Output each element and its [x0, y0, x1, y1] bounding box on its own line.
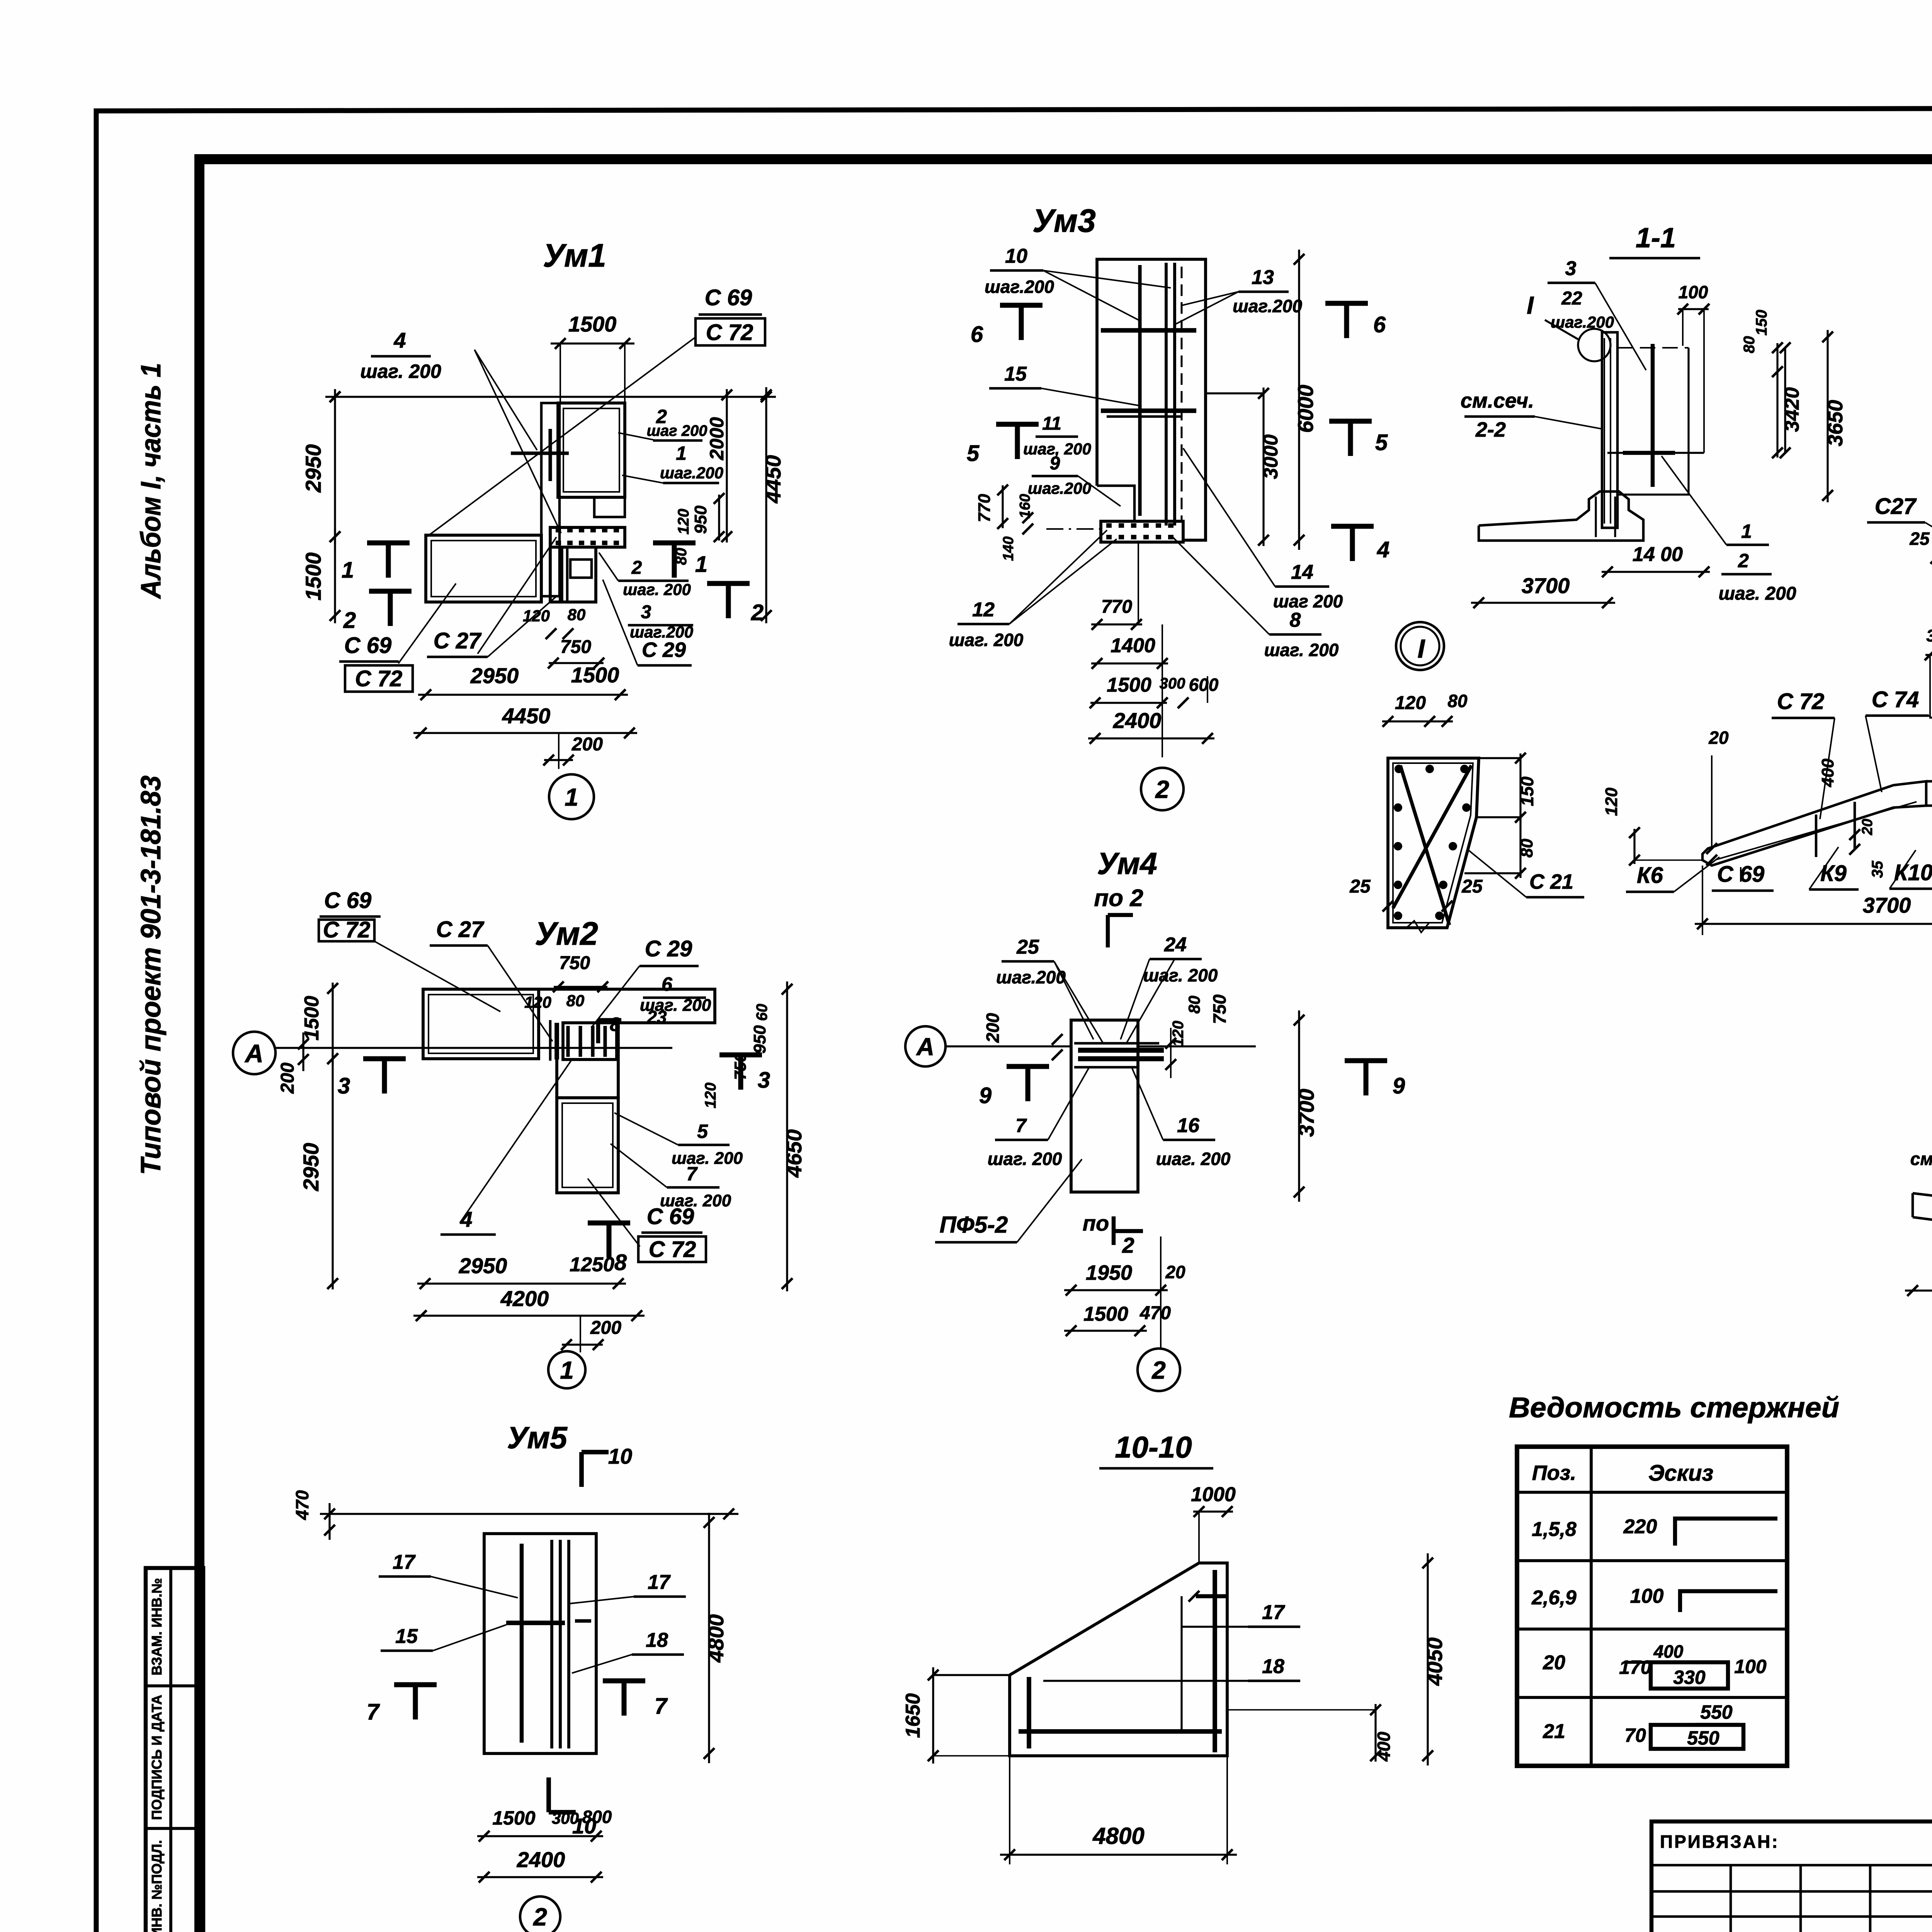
- svg-text:2: 2: [1151, 1356, 1166, 1384]
- svg-text:300: 300: [1926, 626, 1932, 645]
- svg-text:18: 18: [646, 1629, 668, 1651]
- svg-text:80: 80: [568, 605, 586, 624]
- svg-text:2950: 2950: [301, 444, 325, 493]
- svg-text:2000: 2000: [706, 417, 728, 460]
- svg-text:25: 25: [1349, 876, 1371, 897]
- svg-text:1: 1: [560, 1356, 574, 1384]
- svg-text:600: 600: [1189, 675, 1219, 695]
- svg-text:3700: 3700: [1522, 573, 1570, 598]
- svg-text:11: 11: [1042, 413, 1061, 434]
- svg-text:400: 400: [1653, 1641, 1684, 1662]
- svg-text:А: А: [916, 1033, 934, 1061]
- svg-text:200: 200: [590, 1318, 621, 1338]
- svg-text:2: 2: [1155, 776, 1169, 803]
- svg-text:2950: 2950: [299, 1143, 323, 1192]
- svg-text:С 72: С 72: [649, 1237, 696, 1262]
- svg-text:9: 9: [979, 1083, 992, 1108]
- svg-text:шаг. 200: шаг. 200: [1156, 1149, 1231, 1169]
- svg-text:шаг.200: шаг.200: [1233, 296, 1302, 316]
- svg-text:2950: 2950: [459, 1253, 507, 1278]
- svg-text:I: I: [1418, 634, 1426, 663]
- svg-text:25: 25: [1016, 936, 1039, 958]
- svg-text:750: 750: [560, 637, 591, 657]
- svg-text:шаг.200: шаг.200: [1028, 479, 1091, 497]
- svg-text:Ум2: Ум2: [535, 915, 598, 952]
- svg-text:2: 2: [1738, 550, 1749, 571]
- svg-text:330: 330: [1673, 1667, 1706, 1688]
- svg-text:70: 70: [1624, 1725, 1646, 1746]
- svg-text:1500: 1500: [1107, 674, 1151, 696]
- svg-text:10: 10: [1005, 245, 1027, 267]
- svg-text:С 72: С 72: [706, 320, 753, 345]
- svg-text:С 74: С 74: [1872, 687, 1919, 712]
- svg-text:Ведомость стержней: Ведомость стержней: [1509, 1391, 1839, 1423]
- svg-text:14: 14: [1291, 561, 1313, 583]
- svg-text:ПОДПИСЬ И ДАТА: ПОДПИСЬ И ДАТА: [149, 1695, 165, 1820]
- svg-text:3700: 3700: [1863, 893, 1911, 917]
- svg-text:35: 35: [1869, 861, 1886, 878]
- svg-text:К6: К6: [1637, 863, 1663, 888]
- svg-text:С 69: С 69: [647, 1204, 694, 1229]
- svg-text:80: 80: [566, 992, 585, 1010]
- svg-text:С 72: С 72: [1777, 689, 1825, 714]
- svg-text:С 72: С 72: [355, 666, 403, 691]
- svg-text:10: 10: [608, 1444, 632, 1468]
- svg-text:1400: 1400: [1111, 634, 1155, 657]
- svg-text:200: 200: [277, 1063, 298, 1094]
- svg-text:120: 120: [523, 607, 550, 625]
- svg-text:шаг. 200: шаг. 200: [1718, 583, 1796, 604]
- svg-text:7: 7: [1015, 1115, 1027, 1136]
- svg-text:1: 1: [695, 552, 707, 577]
- svg-text:120: 120: [1395, 693, 1426, 713]
- svg-text:800: 800: [582, 1807, 612, 1827]
- svg-text:шаг. 200: шаг. 200: [360, 361, 441, 382]
- svg-text:4800: 4800: [704, 1614, 728, 1663]
- svg-text:Типовой проект 901-3-181.83: Типовой проект 901-3-181.83: [136, 776, 167, 1175]
- svg-text:ИНВ. №ПОДЛ.: ИНВ. №ПОДЛ.: [149, 1840, 165, 1932]
- svg-text:2: 2: [533, 1903, 547, 1931]
- svg-text:К9: К9: [1820, 861, 1847, 886]
- svg-text:3: 3: [641, 602, 651, 622]
- svg-text:950: 950: [691, 505, 710, 534]
- svg-text:2400: 2400: [1113, 708, 1162, 733]
- svg-text:400: 400: [1374, 1731, 1394, 1762]
- svg-text:по: по: [1083, 1211, 1109, 1235]
- svg-text:120: 120: [675, 509, 692, 535]
- svg-text:I: I: [1527, 291, 1534, 319]
- svg-text:1500: 1500: [301, 553, 325, 601]
- svg-text:15: 15: [1004, 363, 1027, 385]
- svg-text:1-1: 1-1: [1636, 223, 1676, 253]
- svg-text:Ум3: Ум3: [1032, 202, 1096, 239]
- svg-text:9: 9: [1050, 453, 1060, 474]
- svg-text:шаг. 200: шаг. 200: [672, 1149, 743, 1168]
- svg-text:6000: 6000: [1293, 385, 1318, 433]
- svg-text:2950: 2950: [470, 663, 519, 688]
- svg-text:1: 1: [676, 442, 687, 464]
- svg-text:10-10: 10-10: [1115, 1430, 1192, 1464]
- svg-text:шаг. 200: шаг. 200: [949, 630, 1024, 650]
- svg-text:950: 950: [750, 1025, 769, 1054]
- svg-text:8: 8: [1290, 609, 1301, 631]
- svg-text:550: 550: [1687, 1727, 1719, 1749]
- svg-text:5: 5: [697, 1121, 708, 1142]
- svg-text:20: 20: [1543, 1651, 1565, 1674]
- svg-text:шаг.200: шаг.200: [996, 967, 1066, 987]
- svg-text:22: 22: [1561, 288, 1582, 309]
- svg-text:6: 6: [1373, 312, 1386, 337]
- svg-text:1000: 1000: [1191, 1483, 1236, 1506]
- svg-text:25: 25: [1461, 876, 1483, 897]
- svg-text:3: 3: [338, 1073, 350, 1099]
- svg-text:1500: 1500: [301, 996, 323, 1041]
- svg-text:300: 300: [552, 1809, 579, 1827]
- svg-text:80: 80: [1741, 336, 1758, 354]
- svg-text:4: 4: [393, 328, 406, 352]
- svg-text:Ум5: Ум5: [507, 1420, 568, 1455]
- svg-text:20: 20: [1165, 1262, 1185, 1282]
- svg-text:550: 550: [1700, 1701, 1733, 1723]
- svg-text:шаг 200: шаг 200: [1273, 591, 1343, 611]
- svg-text:1: 1: [342, 558, 354, 583]
- svg-text:Поз.: Поз.: [1532, 1461, 1576, 1485]
- svg-text:Эскиз: Эскиз: [1648, 1461, 1713, 1486]
- svg-text:С 69: С 69: [324, 888, 372, 913]
- svg-text:4: 4: [1377, 537, 1389, 562]
- svg-text:750: 750: [1209, 994, 1230, 1024]
- svg-text:Ум4: Ум4: [1097, 846, 1157, 881]
- svg-text:1: 1: [1741, 520, 1752, 542]
- svg-text:1250: 1250: [570, 1253, 614, 1276]
- svg-text:3650: 3650: [1824, 400, 1847, 446]
- svg-text:С 29: С 29: [642, 638, 686, 662]
- svg-text:17: 17: [393, 1551, 416, 1573]
- svg-text:470: 470: [1139, 1303, 1171, 1323]
- svg-text:по 2: по 2: [1094, 885, 1143, 912]
- svg-text:25: 25: [1909, 529, 1930, 549]
- svg-text:1500: 1500: [568, 312, 617, 336]
- svg-text:шаг 200: шаг 200: [646, 422, 707, 439]
- svg-text:6: 6: [662, 973, 673, 995]
- svg-text:ВЗАМ. ИНВ.№: ВЗАМ. ИНВ.№: [149, 1578, 165, 1675]
- svg-text:1650: 1650: [902, 1693, 924, 1738]
- svg-text:С 69: С 69: [344, 633, 392, 658]
- svg-text:5: 5: [967, 441, 980, 466]
- svg-text:2: 2: [631, 558, 642, 578]
- svg-text:17: 17: [648, 1571, 671, 1594]
- svg-text:18: 18: [1262, 1655, 1284, 1678]
- svg-text:С 69: С 69: [705, 285, 752, 310]
- svg-text:120: 120: [702, 1083, 719, 1109]
- svg-text:Ум1: Ум1: [543, 237, 606, 274]
- svg-text:3420: 3420: [1781, 387, 1803, 432]
- svg-text:24: 24: [1164, 934, 1187, 956]
- svg-text:470: 470: [292, 1490, 312, 1520]
- svg-text:Альбом I, часть 1: Альбом I, часть 1: [136, 363, 167, 599]
- svg-text:400: 400: [1818, 759, 1837, 787]
- svg-text:21: 21: [1543, 1720, 1565, 1743]
- svg-text:2,6,9: 2,6,9: [1531, 1587, 1577, 1609]
- svg-text:ПФ5-2: ПФ5-2: [940, 1212, 1008, 1238]
- svg-text:750: 750: [559, 953, 590, 973]
- svg-text:9: 9: [1393, 1073, 1405, 1099]
- svg-text:770: 770: [975, 494, 994, 522]
- svg-text:2400: 2400: [517, 1847, 565, 1872]
- svg-text:150: 150: [1517, 776, 1537, 806]
- svg-text:100: 100: [1630, 1585, 1664, 1607]
- svg-text:С 27: С 27: [436, 917, 485, 942]
- svg-text:5: 5: [1375, 430, 1388, 455]
- svg-text:220: 220: [1623, 1515, 1657, 1538]
- svg-text:4450: 4450: [761, 455, 785, 504]
- svg-text:8: 8: [614, 1250, 627, 1275]
- svg-text:1950: 1950: [1086, 1261, 1132, 1284]
- svg-text:80: 80: [1185, 996, 1203, 1014]
- svg-text:13: 13: [1252, 266, 1274, 289]
- svg-text:4200: 4200: [500, 1286, 549, 1311]
- svg-text:140: 140: [1000, 536, 1017, 561]
- svg-text:4650: 4650: [782, 1129, 806, 1178]
- svg-text:4: 4: [460, 1207, 472, 1231]
- svg-text:1,5,8: 1,5,8: [1532, 1518, 1577, 1541]
- svg-text:16: 16: [1177, 1114, 1200, 1137]
- svg-text:3700: 3700: [1294, 1089, 1318, 1137]
- svg-text:3: 3: [758, 1068, 770, 1093]
- svg-text:шаг. 200: шаг. 200: [623, 580, 691, 599]
- svg-text:шаг.200: шаг.200: [660, 464, 723, 482]
- svg-text:770: 770: [1101, 597, 1132, 617]
- svg-text:80: 80: [1517, 838, 1536, 857]
- svg-text:80: 80: [1447, 691, 1468, 711]
- svg-text:С 21: С 21: [1529, 870, 1573, 893]
- svg-text:шаг.200: шаг.200: [1551, 313, 1614, 331]
- svg-text:300: 300: [1160, 675, 1185, 692]
- svg-text:шаг.200: шаг.200: [985, 277, 1054, 297]
- svg-text:2: 2: [751, 600, 764, 625]
- svg-text:7: 7: [367, 1699, 380, 1725]
- svg-text:14 00: 14 00: [1633, 543, 1683, 566]
- svg-text:170: 170: [1619, 1656, 1651, 1678]
- svg-text:4450: 4450: [502, 704, 551, 728]
- svg-text:6: 6: [971, 322, 983, 347]
- svg-text:12: 12: [972, 599, 995, 621]
- svg-text:1: 1: [565, 783, 578, 811]
- svg-text:3: 3: [1565, 257, 1577, 280]
- svg-text:2: 2: [1122, 1233, 1134, 1257]
- svg-text:200: 200: [983, 1013, 1003, 1043]
- svg-text:С27: С27: [1875, 494, 1917, 519]
- svg-text:7: 7: [655, 1694, 668, 1719]
- svg-text:7: 7: [686, 1163, 698, 1185]
- svg-text:100: 100: [1734, 1656, 1767, 1677]
- svg-text:1500: 1500: [571, 663, 619, 687]
- svg-text:см.сеч.: см.сеч.: [1461, 389, 1534, 412]
- svg-text:20: 20: [1708, 728, 1729, 748]
- svg-text:3000: 3000: [1260, 434, 1282, 479]
- svg-text:150: 150: [1753, 310, 1770, 336]
- svg-text:см.сеч.2-2: см.сеч.2-2: [1910, 1149, 1932, 1169]
- svg-text:17: 17: [1262, 1601, 1285, 1624]
- svg-text:шаг. 200: шаг. 200: [1143, 965, 1218, 985]
- svg-text:шаг. 200: шаг. 200: [1264, 640, 1339, 660]
- svg-text:100: 100: [1679, 282, 1708, 302]
- svg-text:4800: 4800: [1092, 1823, 1144, 1849]
- svg-text:120: 120: [1602, 787, 1621, 816]
- svg-text:С 27: С 27: [434, 628, 482, 653]
- svg-text:1500: 1500: [1083, 1303, 1128, 1325]
- svg-text:С 72: С 72: [323, 917, 371, 942]
- svg-text:2: 2: [343, 608, 356, 633]
- svg-text:А: А: [244, 1039, 264, 1068]
- svg-text:20: 20: [1859, 819, 1876, 835]
- svg-text:шаг. 200: шаг. 200: [988, 1149, 1062, 1169]
- svg-text:60: 60: [753, 1004, 770, 1021]
- svg-text:С 29: С 29: [645, 936, 692, 961]
- svg-text:ПРИВЯЗАН:: ПРИВЯЗАН:: [1660, 1832, 1779, 1852]
- svg-text:15: 15: [395, 1625, 418, 1648]
- svg-text:2-2: 2-2: [1475, 418, 1506, 441]
- svg-text:200: 200: [571, 734, 603, 755]
- svg-text:1500: 1500: [492, 1807, 535, 1829]
- svg-text:4050: 4050: [1422, 1638, 1447, 1686]
